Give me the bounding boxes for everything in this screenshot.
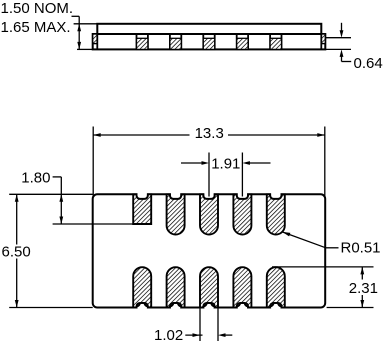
dimension 1.50 NOM label: [1, 0, 74, 17]
pad 5 (top row): [267, 194, 285, 234]
dimension 6.50 label: [2, 243, 31, 260]
side view castellation pad 5: [270, 34, 281, 49]
svg-text:1.50 NOM.: 1.50 NOM.: [1, 0, 74, 17]
pad 3 (top row): [200, 194, 218, 234]
side view castellation pad 4: [237, 34, 248, 49]
dimension 1.02 arrow left: [218, 333, 232, 337]
pad 7 (bottom row): [167, 267, 185, 307]
dimension 1.80 extension line: [53, 223, 134, 225]
radius R0.51 label: [341, 240, 381, 257]
dimension 2.31 arrows: [360, 267, 364, 308]
pad 8 (bottom row): [200, 267, 218, 307]
side view left end pad: [93, 34, 98, 49]
pad 2 (top row): [167, 194, 185, 234]
dimension 13.3 extension line left: [92, 127, 94, 198]
radius R0.51 leader: [282, 232, 338, 248]
dimension 6.50 extension line top: [9, 193, 93, 195]
dimension 6.50 line: [16, 194, 18, 307]
svg-text:13.3: 13.3: [195, 125, 224, 142]
dimension 1.02 label: [154, 327, 183, 343]
dimension 1.91 label: [211, 155, 240, 172]
dimension 0.64 label: [354, 55, 383, 72]
side view body: [93, 34, 326, 49]
dimension height arrow down: [77, 42, 81, 50]
dimension height leader: [72, 16, 80, 49]
dimension 1.80 label: [21, 169, 50, 186]
svg-text:1.65 MAX.: 1.65 MAX.: [1, 19, 71, 36]
pad 10 (bottom row): [267, 267, 285, 307]
dimension 13.3 line: [93, 134, 325, 136]
dimension height arrow up: [77, 24, 81, 32]
dimension 1.91 extension line right: [241, 153, 243, 197]
dimension 1.91 arrow left: [242, 161, 270, 165]
dimension 13.3 extension line right: [324, 127, 326, 198]
dimension 13.3 arrows: [93, 133, 325, 137]
package outline: [93, 194, 326, 307]
svg-text:R0.51: R0.51: [341, 240, 381, 257]
pad 1 (top row, pin 1, flat end): [133, 194, 151, 224]
pad 4 (top row): [233, 194, 251, 234]
dimension 1.80 leader: [53, 177, 62, 224]
dimension height extension line top: [74, 23, 98, 25]
svg-text:2.31: 2.31: [349, 280, 378, 297]
side view right end pad: [321, 34, 325, 49]
dimension 0.64 arrow up: [340, 49, 352, 61]
dimension 2.31 extension line top: [272, 266, 374, 268]
dimension 1.91 arrow right: [181, 161, 209, 165]
dimension 13.3 label: [195, 125, 224, 142]
dimension 6.50 extension line bottom: [9, 307, 93, 309]
side view castellation pad 3: [203, 34, 214, 49]
pad 9 (bottom row): [233, 267, 251, 307]
side view castellation pad 2: [170, 34, 181, 49]
dimension 0.64 extension line bottom: [325, 48, 351, 50]
svg-text:1.91: 1.91: [211, 155, 240, 172]
svg-text:0.64: 0.64: [354, 55, 383, 72]
dimension 1.80 arrow up: [59, 194, 63, 202]
dimension 2.31 label: [349, 280, 378, 297]
dimension 1.65 MAX label: [1, 19, 71, 36]
svg-text:1.02: 1.02: [154, 327, 183, 343]
dimension 1.91 extension line left: [208, 153, 210, 197]
dimension 1.02 extension line left: [199, 308, 201, 342]
svg-text:6.50: 6.50: [2, 243, 31, 260]
dimension height extension line bottom: [77, 48, 93, 50]
dimension 1.02 arrow right: [185, 333, 202, 337]
side view castellation pad 1: [137, 34, 148, 49]
dimension 1.80 arrow down: [59, 217, 63, 225]
dimension 1.02 extension line right: [217, 308, 219, 342]
dimension 2.31 line: [361, 267, 363, 308]
side view lid: [97, 24, 321, 34]
dimension 0.64 arrow down: [340, 23, 344, 38]
dimension 0.64 extension line top: [325, 37, 351, 39]
dimension 6.50 arrows: [15, 194, 19, 307]
pad 6 (bottom row): [133, 267, 151, 307]
dimension 2.31 extension line bottom: [327, 307, 374, 309]
svg-text:1.80: 1.80: [21, 169, 50, 186]
